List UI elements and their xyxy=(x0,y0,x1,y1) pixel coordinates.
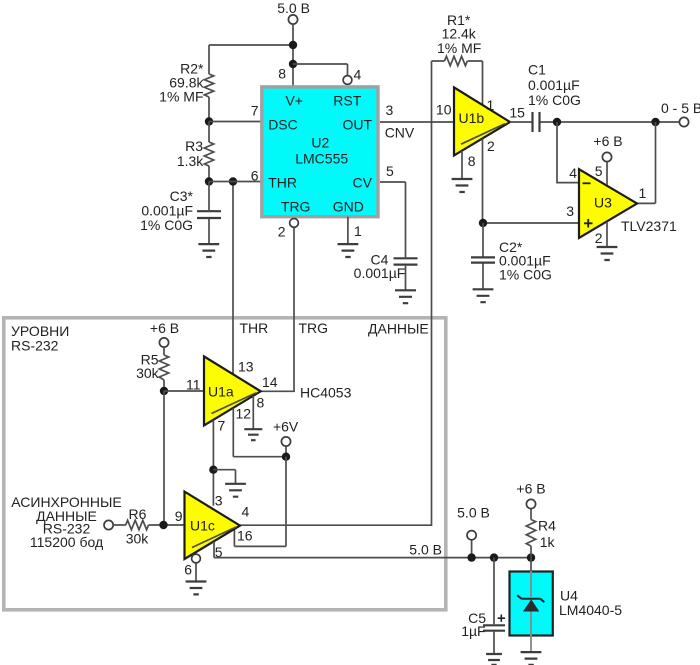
wire U1a pin 8 to ground xyxy=(252,396,254,429)
output terminal 0-5V xyxy=(679,117,688,126)
svg-text:V+: V+ xyxy=(285,92,303,108)
resistor R5 xyxy=(163,347,165,391)
svg-text:2: 2 xyxy=(595,230,603,246)
resistor R4 xyxy=(530,509,532,558)
capacitor C4 xyxy=(394,258,418,264)
junction R5 xyxy=(160,387,168,395)
node DANNYE vertical wire + U1c output xyxy=(240,61,432,525)
junction xyxy=(651,118,659,126)
svg-text:0.001µF: 0.001µF xyxy=(354,265,406,281)
svg-text:+6 В: +6 В xyxy=(150,320,179,336)
ground C2 xyxy=(473,289,494,302)
svg-text:C1: C1 xyxy=(528,62,546,78)
svg-text:R4: R4 xyxy=(538,518,556,534)
svg-text:GND: GND xyxy=(333,199,364,215)
junction xyxy=(467,553,475,561)
svg-text:13: 13 xyxy=(238,359,254,375)
svg-text:1µF: 1µF xyxy=(461,623,485,639)
ground C5 xyxy=(486,654,502,665)
wire C1 to output terminal xyxy=(541,121,680,123)
svg-text:THR: THR xyxy=(240,320,269,336)
svg-text:5.0 В: 5.0 В xyxy=(457,505,490,521)
svg-text:4: 4 xyxy=(569,165,577,181)
svg-text:LMC555: LMC555 xyxy=(295,150,348,166)
shunt reference U4 LM4040-5 xyxy=(510,572,553,636)
svg-text:6: 6 xyxy=(251,168,259,184)
svg-text:ДАННЫЕ: ДАННЫЕ xyxy=(368,321,429,337)
IC U2 LMC555 xyxy=(262,87,378,217)
svg-text:11: 11 xyxy=(186,377,201,393)
wire to RST pin 4 xyxy=(293,64,348,75)
wire U1b pin 8 to ground xyxy=(461,151,463,179)
junction pin7 node xyxy=(209,466,217,474)
svg-text:HC4053: HC4053 xyxy=(300,385,352,401)
junction R3/C3 xyxy=(205,177,213,185)
wire pin 6 to ground xyxy=(195,563,197,581)
junction xyxy=(553,118,561,126)
resistor R2 xyxy=(208,45,210,122)
svg-text:U1c: U1c xyxy=(190,518,215,534)
junction U1c input xyxy=(159,521,167,529)
wire branch to ground xyxy=(213,470,235,484)
svg-text:R6: R6 xyxy=(129,506,147,522)
op-amp U1a xyxy=(204,356,261,425)
ground U4 xyxy=(521,652,542,665)
junction xyxy=(289,60,297,68)
ground U1c pin6 xyxy=(186,582,207,595)
resistor R3 xyxy=(208,122,210,182)
wire U2 GND pin 1 xyxy=(347,217,349,244)
svg-text:9: 9 xyxy=(175,508,183,524)
svg-text:5: 5 xyxy=(595,163,603,179)
capacitor C1 xyxy=(533,112,540,132)
capacitor C2 xyxy=(482,223,484,289)
svg-text:U1b: U1b xyxy=(459,110,485,126)
wire +6V stub xyxy=(285,446,287,456)
ground C3 xyxy=(198,244,219,257)
wire U3 pin 2 to ground xyxy=(606,222,608,247)
svg-text:U3: U3 xyxy=(594,195,612,211)
wire 5.0V to U2 pin 8 xyxy=(292,25,294,86)
capacitor C3 xyxy=(208,182,210,244)
svg-text:7: 7 xyxy=(251,103,259,119)
svg-text:30k: 30k xyxy=(136,365,160,381)
svg-text:10: 10 xyxy=(436,102,452,118)
svg-text:LM4040-5: LM4040-5 xyxy=(559,602,622,618)
wire +6V node to U1c pin 16 xyxy=(234,457,286,547)
resistor R6 xyxy=(113,524,185,526)
svg-text:5.0 В: 5.0 В xyxy=(277,0,310,16)
node THR vertical wire xyxy=(232,182,234,374)
svg-text:1% C0G: 1% C0G xyxy=(499,267,552,283)
op-amp U1c xyxy=(185,492,241,559)
svg-text:OUT: OUT xyxy=(342,117,372,133)
svg-text:1% MF: 1% MF xyxy=(437,40,481,56)
svg-text:3: 3 xyxy=(215,493,223,509)
wire 5.0 terminal stub xyxy=(471,540,473,558)
wire DSC pin 7 xyxy=(209,121,261,123)
svg-text:RS-232: RS-232 xyxy=(11,338,59,354)
junction xyxy=(490,553,498,561)
svg-text:+6V: +6V xyxy=(273,419,299,435)
svg-text:TRG: TRG xyxy=(299,320,329,336)
junction xyxy=(289,41,297,49)
svg-text:0.001µF: 0.001µF xyxy=(528,77,580,93)
pin 6 open circle xyxy=(192,554,201,563)
svg-text:CNV: CNV xyxy=(385,125,415,141)
ground U3 xyxy=(597,247,618,260)
svg-text:1% C0G: 1% C0G xyxy=(140,217,193,233)
svg-text:5.0 В: 5.0 В xyxy=(409,542,442,558)
ground pin7 branch xyxy=(225,484,246,497)
wire U1b pin 2 down xyxy=(482,139,484,224)
svg-text:3: 3 xyxy=(386,102,394,118)
svg-text:TLV2371: TLV2371 xyxy=(621,218,677,234)
wire U1a pin 7 down xyxy=(212,420,214,506)
svg-text:8: 8 xyxy=(278,66,286,82)
svg-text:RST: RST xyxy=(333,92,361,108)
svg-text:8: 8 xyxy=(257,395,265,411)
pin 4 open circle xyxy=(343,76,352,85)
op-amp U3 xyxy=(579,169,637,238)
wire R1 to U1b pin 1 xyxy=(482,61,484,104)
svg-text:6: 6 xyxy=(184,562,192,578)
svg-text:4: 4 xyxy=(354,67,362,83)
svg-text:1.3k: 1.3k xyxy=(177,153,204,169)
ground C4 xyxy=(395,290,416,303)
svg-text:1k: 1k xyxy=(540,534,556,550)
wire OUT pin 3 / CNV xyxy=(380,121,454,123)
svg-text:15: 15 xyxy=(509,105,525,121)
svg-text:R3: R3 xyxy=(185,138,203,154)
svg-text:115200 бод: 115200 бод xyxy=(30,534,103,550)
svg-text:12: 12 xyxy=(236,406,252,422)
svg-text:CV: CV xyxy=(353,175,373,191)
wire to U3 minus input xyxy=(557,122,579,183)
wire to U3 plus input xyxy=(483,222,579,224)
svg-text:TRG: TRG xyxy=(281,199,311,215)
wire U1b output xyxy=(510,121,532,123)
svg-text:4: 4 xyxy=(242,504,250,520)
svg-text:U1a: U1a xyxy=(208,384,234,400)
svg-text:2: 2 xyxy=(278,224,286,240)
svg-text:16: 16 xyxy=(237,528,253,544)
svg-text:U2: U2 xyxy=(311,135,329,151)
wire U3 output feedback xyxy=(637,122,656,203)
zener diode xyxy=(517,595,544,602)
node TRG vertical wire xyxy=(293,227,295,391)
wire to U1a pin 11 xyxy=(164,390,204,392)
wire pin5 stub xyxy=(606,162,608,185)
RS-232 levels box xyxy=(4,318,446,610)
wire junction to R2 top xyxy=(209,44,293,46)
junction THR branch xyxy=(229,177,237,185)
svg-text:14: 14 xyxy=(262,374,278,390)
wire THR pin 6 xyxy=(209,181,261,183)
svg-text:THR: THR xyxy=(268,175,297,191)
svg-text:0 - 5 В: 0 - 5 В xyxy=(661,100,700,116)
wire CV pin 5 to C4 xyxy=(380,182,406,257)
ground U1b xyxy=(452,179,473,192)
junction +6V node xyxy=(282,453,290,461)
wire U1a pin 12 to +6V node xyxy=(233,408,286,457)
svg-text:+6 В: +6 В xyxy=(516,481,545,497)
svg-text:DSC: DSC xyxy=(268,117,298,133)
wire U1c pin 5 / 5.0V rail xyxy=(214,542,531,558)
svg-text:3: 3 xyxy=(566,203,574,219)
svg-text:2: 2 xyxy=(487,138,495,154)
svg-text:1: 1 xyxy=(354,223,362,239)
wire U1a output to TRG xyxy=(261,390,295,392)
svg-text:1% C0G: 1% C0G xyxy=(528,92,581,108)
wire R5 node down to U1c input xyxy=(163,391,165,525)
svg-text:30k: 30k xyxy=(126,531,150,547)
pin 2 TRG open circle xyxy=(290,219,299,228)
junction C2 node xyxy=(479,219,487,227)
svg-text:+6 В: +6 В xyxy=(593,133,622,149)
svg-text:1% MF: 1% MF xyxy=(159,88,203,104)
op-amp U1b xyxy=(454,87,510,155)
svg-text:1: 1 xyxy=(639,185,647,201)
junction R2/R3/pin7 xyxy=(205,117,213,125)
svg-text:7: 7 xyxy=(218,418,226,434)
ground U1a pin8 xyxy=(244,429,262,440)
ground U2 xyxy=(338,244,359,257)
capacitor C5 xyxy=(493,558,495,654)
svg-text:1: 1 xyxy=(487,97,495,113)
svg-text:5: 5 xyxy=(386,163,394,179)
junction xyxy=(527,553,535,561)
svg-text:8: 8 xyxy=(468,153,476,169)
resistor R1 feedback xyxy=(432,60,483,62)
